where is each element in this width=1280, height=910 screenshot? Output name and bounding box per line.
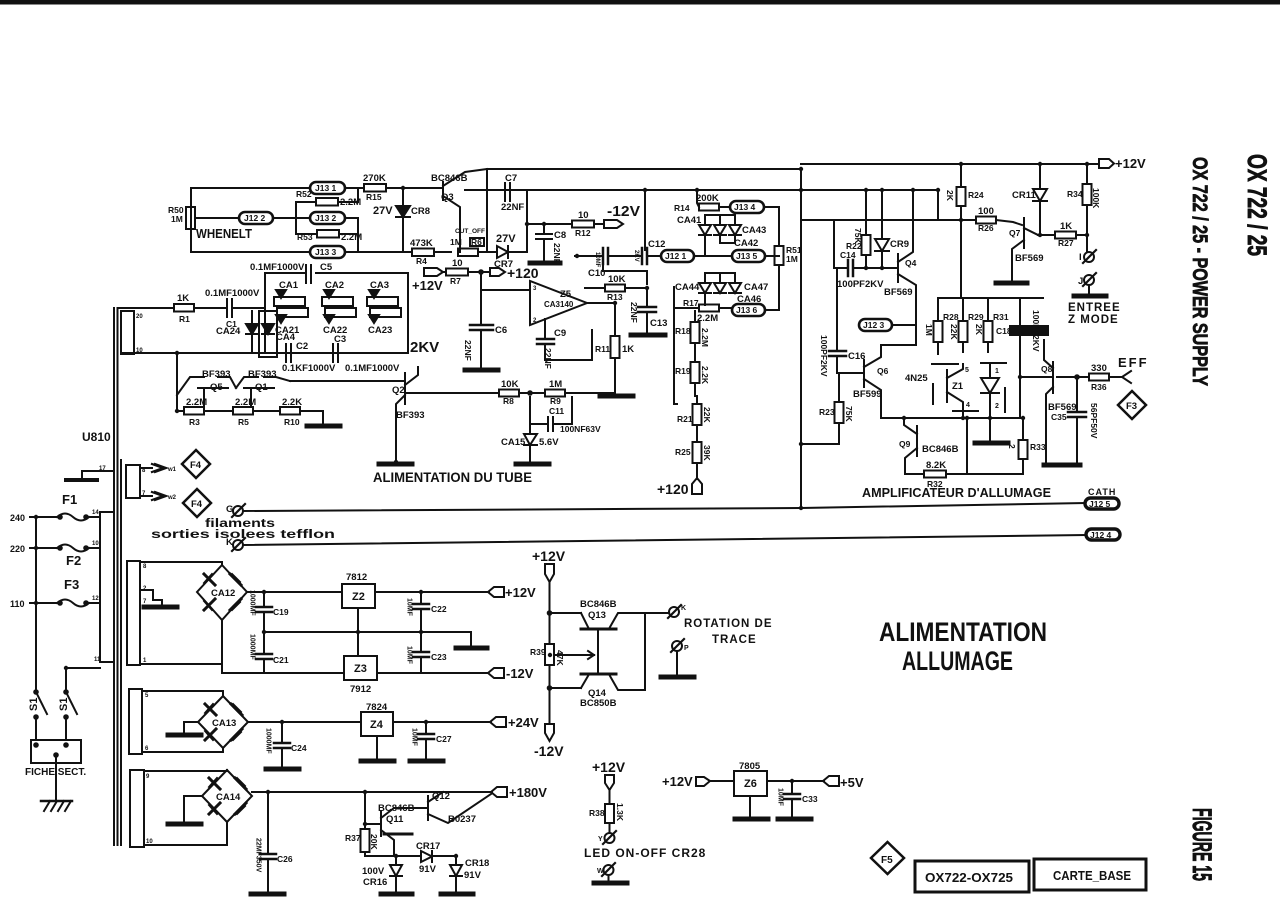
svg-text:10MF: 10MF — [777, 788, 784, 807]
svg-text:10: 10 — [452, 258, 463, 269]
svg-text:J12 2: J12 2 — [244, 213, 266, 223]
connector arrow +24V — [490, 717, 506, 727]
winding box CA12 — [127, 561, 140, 665]
svg-text:+12V: +12V — [505, 585, 536, 600]
connector pill J12 1 — [661, 250, 694, 262]
wire emitter rail — [881, 417, 1023, 419]
diamond F4 a — [182, 450, 210, 478]
diamond F5 — [871, 842, 904, 874]
resistor R12 10 — [572, 221, 594, 228]
wire winding to bridge top — [140, 562, 222, 565]
svg-text:22NF: 22NF — [463, 340, 473, 361]
svg-text:R27: R27 — [1058, 238, 1074, 248]
diode CR11 — [1039, 164, 1041, 189]
pin W phi — [604, 865, 614, 875]
svg-text:10MF: 10MF — [406, 646, 413, 665]
wire Q3 emitter down — [459, 215, 461, 252]
transistor Q6 BF599 — [837, 372, 864, 374]
wire amp box left edge — [800, 169, 802, 508]
vertical Z2-Z3 — [357, 608, 359, 656]
svg-text:R28: R28 — [943, 312, 959, 322]
svg-text:WHENELT: WHENELT — [196, 226, 252, 241]
svg-text:C22: C22 — [431, 604, 447, 614]
capacitor C14 100PF2KV — [834, 220, 847, 268]
svg-text:w1: w1 — [167, 467, 177, 473]
resistor R10 2.2K — [280, 407, 300, 415]
HV primary winding box — [121, 311, 134, 354]
zero rail — [264, 631, 471, 633]
svg-text:S1: S1 — [28, 698, 40, 711]
svg-text:w2: w2 — [167, 495, 177, 501]
winding wires — [144, 770, 227, 771]
resistor R8 10K — [499, 390, 519, 397]
svg-text:CA2: CA2 — [325, 280, 344, 291]
svg-text:C18: C18 — [996, 326, 1012, 336]
svg-text:R17: R17 — [683, 298, 699, 308]
svg-text:+12V: +12V — [412, 278, 443, 293]
svg-text:22K: 22K — [702, 407, 712, 423]
svg-text:11: 11 — [94, 657, 101, 663]
svg-text:C21: C21 — [273, 655, 289, 665]
svg-text:F4: F4 — [190, 460, 202, 471]
svg-text:C16: C16 — [848, 351, 865, 362]
svg-text:R26: R26 — [978, 223, 994, 233]
ground under LED — [975, 441, 1008, 446]
svg-text:-12V: -12V — [534, 743, 564, 759]
connector arrow +12V top right — [1099, 159, 1114, 168]
svg-text:K: K — [681, 605, 686, 612]
svg-text:C35: C35 — [1051, 412, 1067, 422]
ground under P — [661, 675, 694, 680]
zener CA15 5.6V — [529, 397, 531, 434]
regulator Z3 7912 — [344, 656, 377, 680]
+180 rail — [252, 791, 443, 793]
svg-text:B0237: B0237 — [448, 814, 476, 825]
svg-text:10K: 10K — [608, 274, 626, 285]
svg-text:C6: C6 — [495, 325, 507, 336]
resistor R9 1M — [545, 390, 565, 397]
svg-text:2: 2 — [995, 403, 999, 410]
svg-text:20K: 20K — [369, 834, 379, 850]
capacitor C8 22NF — [543, 224, 545, 234]
svg-text:Q9: Q9 — [899, 439, 911, 449]
resistor R11 1K vertical — [587, 303, 615, 336]
svg-text:R19: R19 — [675, 366, 691, 376]
svg-text:BF393: BF393 — [248, 369, 277, 380]
diamond F3 — [1118, 391, 1146, 419]
svg-text:OX722-OX725: OX722-OX725 — [925, 870, 1013, 885]
wire mid rail — [801, 219, 976, 221]
connector pill J12 5 — [1085, 498, 1119, 509]
wire pin3 — [481, 289, 530, 291]
svg-text:20: 20 — [136, 314, 143, 320]
resistor R37 20K vertical — [361, 829, 370, 852]
svg-text:75K: 75K — [844, 406, 854, 422]
capacitor C2 — [285, 344, 287, 362]
svg-text:ALLUMAGE: ALLUMAGE — [902, 646, 1013, 676]
R39 wiper — [554, 654, 594, 656]
resistor R3 2.2M — [184, 407, 204, 415]
svg-text:Z2: Z2 — [352, 591, 365, 603]
resistor R50 1M (vertical) — [186, 207, 195, 229]
ground under C8 — [530, 261, 560, 266]
svg-text:220: 220 — [10, 544, 25, 554]
svg-text:91V: 91V — [419, 864, 437, 875]
svg-text:J12 3: J12 3 — [863, 320, 885, 330]
pin Y phi — [605, 833, 615, 843]
svg-text:R38: R38 — [589, 808, 605, 818]
svg-text:5: 5 — [965, 367, 969, 374]
svg-text:C14: C14 — [840, 250, 856, 260]
capacitor C21 1000MF — [263, 632, 265, 654]
svg-text:CA44: CA44 — [675, 282, 700, 293]
resistor R17 2.2M — [674, 287, 699, 308]
svg-text:2.2M: 2.2M — [700, 328, 710, 347]
wire winding to bridge bottom — [140, 663, 222, 665]
resistor R14 200K — [697, 190, 699, 207]
svg-text:CA42: CA42 — [734, 238, 758, 249]
capacitor C24 1000MF — [281, 722, 283, 743]
ground under Q8/C35 — [1044, 463, 1080, 468]
svg-text:10MF: 10MF — [406, 598, 413, 617]
zener CR16 100V — [365, 855, 421, 857]
op-amp Z5 CA3140 — [530, 281, 587, 325]
svg-text:BF569: BF569 — [1015, 253, 1044, 264]
svg-text:R4: R4 — [416, 256, 427, 266]
svg-text:J: J — [1078, 276, 1083, 287]
svg-text:R53: R53 — [297, 232, 313, 242]
svg-text:TRACE: TRACE — [712, 634, 757, 646]
capacitor C16 — [836, 268, 838, 351]
svg-text:CR18: CR18 — [465, 858, 489, 869]
connector arrow +12V — [488, 587, 504, 597]
svg-text:CR17: CR17 — [416, 841, 440, 852]
svg-text:CR9: CR9 — [890, 239, 909, 250]
connector pill J13 5 — [732, 250, 765, 262]
svg-text:CA1: CA1 — [279, 280, 299, 291]
resistor R21 22K vertical — [693, 404, 702, 425]
capacitor C23 10MF — [420, 632, 422, 652]
connector arrow +180V — [491, 787, 507, 797]
svg-text:R3: R3 — [189, 417, 200, 427]
svg-text:1.3K: 1.3K — [615, 803, 625, 822]
svg-text:7912: 7912 — [350, 684, 371, 695]
resistor R18 2.2M vertical — [694, 311, 696, 322]
svg-text:R13: R13 — [607, 292, 623, 302]
svg-text:1: 1 — [995, 368, 999, 375]
wire w2 arrow — [140, 495, 152, 497]
wire R50 to J12 2 — [195, 217, 239, 219]
svg-text:8: 8 — [143, 564, 147, 570]
svg-text:-12V: -12V — [506, 666, 534, 681]
ground under C6 — [465, 368, 498, 373]
bridge left tap ground — [184, 796, 202, 822]
node CR8 top — [402, 188, 404, 205]
multiplier box outline — [265, 273, 305, 308]
svg-text:10MF: 10MF — [594, 252, 600, 268]
capacitor C6 22NF — [479, 270, 483, 274]
bridge left tap ground — [184, 722, 198, 733]
svg-text:2.2M: 2.2M — [186, 397, 207, 408]
capacitor C10 (left pair) — [575, 255, 603, 257]
svg-text:R9: R9 — [550, 396, 561, 406]
feedback loop wire — [603, 264, 647, 284]
svg-text:2KV: 2KV — [410, 339, 439, 356]
diode CR7 27V — [497, 246, 508, 258]
svg-text:100: 100 — [978, 206, 994, 217]
wire pin2 / C9 — [544, 319, 546, 339]
svg-text:R21: R21 — [677, 414, 693, 424]
svg-text:R14: R14 — [674, 203, 690, 213]
capacitor C19 1000MF — [263, 592, 265, 606]
svg-text:OX 722 / 25: OX 722 / 25 — [1242, 154, 1272, 256]
resistor R52 2.2M — [316, 198, 338, 206]
svg-text:0.1MF1000V: 0.1MF1000V — [345, 363, 400, 374]
capacitor C22 10MF — [420, 592, 422, 604]
svg-text:10: 10 — [92, 541, 99, 547]
svg-text:22NF: 22NF — [629, 302, 639, 323]
svg-text:+5V: +5V — [840, 775, 864, 790]
wire R15 to Q3 — [386, 187, 430, 189]
transistor Q11 BC846B — [364, 792, 366, 829]
svg-text:56PF50V: 56PF50V — [1089, 403, 1099, 439]
svg-text:+120: +120 — [507, 265, 539, 281]
capacitor C18 — [1019, 298, 1021, 418]
svg-text:3: 3 — [533, 286, 537, 292]
svg-text:C3: C3 — [334, 334, 346, 345]
svg-text:BC846B: BC846B — [922, 444, 959, 455]
svg-text:C13: C13 — [650, 318, 667, 329]
svg-text:C7: C7 — [505, 173, 517, 184]
connector arrow -12V — [488, 668, 504, 678]
svg-text:+12V: +12V — [532, 548, 566, 564]
svg-text:Q11: Q11 — [386, 814, 404, 825]
chassis ground — [55, 757, 57, 801]
svg-text:14: 14 — [92, 510, 99, 516]
svg-text:75K: 75K — [853, 228, 863, 244]
box FICHE SECT — [31, 740, 81, 763]
svg-text:CATH: CATH — [1088, 487, 1116, 497]
svg-text:R39: R39 — [530, 647, 546, 657]
svg-text:0.1MF1000V: 0.1MF1000V — [250, 262, 305, 273]
resistor R19 2.2K vertical — [691, 362, 700, 383]
resistor R22 75K vertical — [865, 190, 867, 235]
svg-text:+24V: +24V — [508, 715, 539, 730]
wire mains left bus — [35, 517, 37, 690]
bridge CA13 — [198, 696, 248, 748]
connector arrow -12V — [604, 220, 623, 228]
svg-text:F1: F1 — [62, 492, 77, 507]
resistor R13 10K — [585, 287, 605, 289]
winding wires — [142, 691, 223, 696]
connector arrow +120 — [490, 268, 505, 276]
svg-text:R18: R18 — [675, 326, 691, 336]
svg-text:C2: C2 — [296, 341, 308, 352]
bridge CA14 — [202, 770, 252, 822]
resistor R5 2.2M — [233, 407, 253, 415]
resistor R6 1M — [458, 249, 478, 257]
capacitor C5 — [305, 265, 307, 283]
svg-text:2K: 2K — [974, 324, 984, 336]
svg-text:+12V: +12V — [1115, 156, 1146, 171]
svg-text:2.2K: 2.2K — [700, 366, 710, 385]
winding centre tap ground — [140, 590, 162, 605]
svg-text:2K: 2K — [945, 190, 955, 202]
connector pill J13 4 — [730, 201, 764, 213]
svg-text:R33: R33 — [1030, 442, 1046, 452]
node junction — [528, 391, 532, 395]
transistor Q4 BF569 — [897, 254, 899, 282]
svg-text:Q6: Q6 — [877, 366, 889, 376]
svg-text:F3: F3 — [64, 577, 79, 592]
svg-text:R11: R11 — [595, 344, 610, 354]
svg-text:C5: C5 — [320, 262, 333, 273]
svg-text:7: 7 — [143, 599, 147, 605]
svg-text:C24: C24 — [291, 743, 307, 753]
pin P phi — [672, 641, 682, 651]
svg-text:CR8: CR8 — [411, 206, 430, 217]
svg-text:+12V: +12V — [662, 774, 693, 789]
svg-text:J13 4: J13 4 — [734, 202, 756, 212]
svg-text:CA23: CA23 — [368, 325, 392, 336]
wire R17 bypass left — [674, 287, 677, 404]
svg-text:100PF2KV: 100PF2KV — [819, 335, 829, 377]
svg-text:AMPLIFICATEUR D'ALLUMAGE: AMPLIFICATEUR D'ALLUMAGE — [862, 485, 1051, 500]
svg-text:22NF: 22NF — [543, 348, 553, 369]
pin J phi — [1084, 275, 1094, 285]
svg-text:OX 722 / 25 - POWER SUPPLY: OX 722 / 25 - POWER SUPPLY — [1188, 157, 1211, 386]
svg-text:J13 5: J13 5 — [736, 251, 758, 261]
wire R9 to ground right — [592, 392, 615, 394]
resistor R53 2.2M — [317, 230, 339, 238]
svg-text:R8: R8 — [503, 396, 514, 406]
svg-text:J13 1: J13 1 — [315, 183, 337, 193]
box OX722-OX725 — [915, 861, 1029, 892]
svg-text:5: 5 — [145, 693, 149, 699]
svg-text:CA3: CA3 — [370, 280, 389, 291]
svg-text:Q4: Q4 — [905, 258, 917, 268]
svg-text:240: 240 — [10, 513, 25, 523]
resistor R36 330 — [1089, 374, 1109, 381]
svg-text:10: 10 — [578, 210, 589, 221]
wire bias drop — [177, 353, 184, 411]
svg-text:1000MF: 1000MF — [249, 634, 256, 660]
svg-text:+12V: +12V — [592, 759, 626, 775]
svg-text:100V: 100V — [362, 866, 385, 877]
wire G to J12 5 — [243, 503, 1085, 511]
svg-text:R34: R34 — [1067, 189, 1083, 199]
-12V rail — [222, 620, 344, 673]
pin I phi — [1086, 235, 1088, 251]
svg-text:J12 5: J12 5 — [1089, 499, 1111, 509]
resistor R51 1M vertical — [775, 246, 784, 265]
svg-text:CA15: CA15 — [501, 437, 526, 448]
connector pentagon +120 — [692, 478, 702, 494]
svg-text:J12 1: J12 1 — [665, 251, 687, 261]
winding box CA14 — [130, 770, 144, 847]
resistor R32 8.2K — [905, 473, 924, 475]
ground under Q7 — [996, 281, 1027, 286]
wire J12 2 to branch — [273, 202, 316, 218]
svg-text:27V: 27V — [496, 233, 516, 245]
svg-text:BF393: BF393 — [396, 410, 425, 421]
svg-text:47K: 47K — [555, 650, 565, 666]
svg-text:91V: 91V — [464, 870, 482, 881]
svg-text:I: I — [1079, 252, 1082, 263]
ground under C13 — [631, 333, 665, 338]
svg-text:C8: C8 — [554, 230, 566, 241]
svg-text:110: 110 — [10, 599, 25, 609]
filament winding box — [126, 465, 140, 498]
pin G phi — [233, 506, 243, 516]
svg-text:Z5: Z5 — [560, 289, 572, 300]
wire wehnelt bottom to R4 — [403, 251, 412, 253]
svg-text:C23: C23 — [431, 652, 447, 662]
svg-text:100K: 100K — [1091, 188, 1101, 209]
wire K to J12 4 — [243, 535, 1086, 545]
R28 R29 R31 C18 row — [938, 297, 1043, 299]
multiplier bottom wire — [121, 352, 408, 354]
svg-text:K: K — [226, 537, 233, 548]
svg-text:Z MODE: Z MODE — [1068, 314, 1119, 326]
svg-text:100PF2KV: 100PF2KV — [837, 279, 884, 290]
collector join wire — [644, 613, 646, 690]
svg-text:+120: +120 — [657, 481, 689, 497]
svg-text:CA3140: CA3140 — [544, 300, 574, 309]
svg-text:0.1KF1000V: 0.1KF1000V — [282, 363, 336, 374]
resistor R27 1K — [1055, 232, 1076, 239]
ground under Q2 — [379, 462, 412, 467]
wire rail B — [465, 189, 938, 191]
svg-text:F4: F4 — [191, 499, 203, 510]
svg-text:-12V: -12V — [607, 203, 640, 220]
svg-text:F2: F2 — [66, 553, 81, 568]
wire bridge out +12 — [247, 591, 342, 593]
svg-text:R24: R24 — [968, 190, 984, 200]
svg-text:ENTREE: ENTREE — [1068, 302, 1121, 314]
svg-text:1M: 1M — [171, 214, 183, 224]
svg-text:27V: 27V — [373, 205, 393, 217]
svg-text:2.2K: 2.2K — [282, 397, 302, 408]
pin K phi rotation — [669, 607, 679, 617]
pin K phi — [233, 540, 243, 550]
svg-text:Y: Y — [598, 836, 603, 843]
resistor R15 270K — [364, 184, 386, 192]
bridge CA12 — [197, 565, 247, 620]
wire top +12V rail — [801, 163, 1099, 165]
svg-text:1000MF: 1000MF — [265, 728, 272, 754]
ground under R11 — [600, 394, 633, 399]
svg-text:CR16: CR16 — [363, 877, 387, 888]
wire R12 branch — [527, 223, 572, 225]
svg-text:R1: R1 — [179, 314, 190, 324]
svg-text:R29: R29 — [968, 312, 984, 322]
resistor R26 100 — [976, 217, 996, 224]
ground under CA15 — [516, 462, 549, 467]
svg-text:330: 330 — [1091, 363, 1107, 374]
svg-text:R25: R25 — [675, 447, 691, 457]
transistor Q14 BC850B — [581, 673, 616, 676]
svg-text:1K: 1K — [1060, 221, 1072, 232]
svg-text:CA47: CA47 — [744, 282, 768, 293]
resistor R25 39K vertical — [693, 442, 702, 463]
svg-text:BF393: BF393 — [202, 369, 231, 380]
svg-text:J13 6: J13 6 — [736, 305, 758, 315]
resistor R7 10 — [446, 269, 468, 276]
svg-text:S1: S1 — [58, 698, 70, 711]
svg-text:2KV: 2KV — [633, 250, 639, 262]
wire branch down from rail B — [644, 190, 646, 250]
